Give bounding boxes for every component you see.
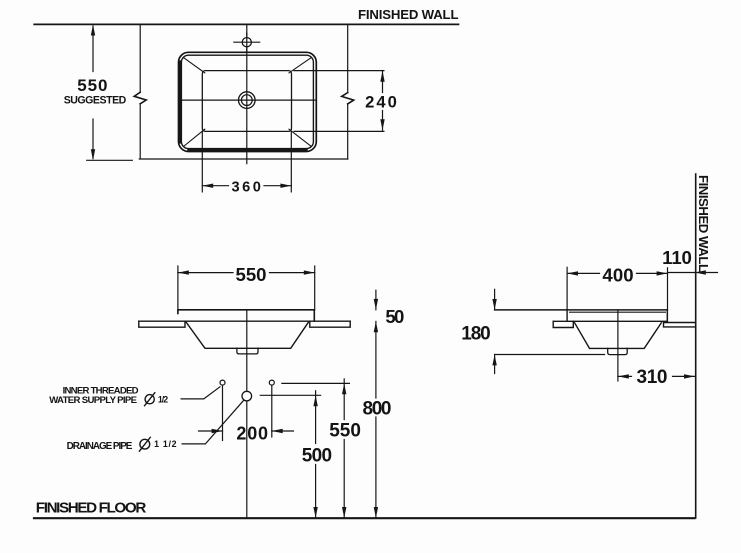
dim 180: arrow down — [492, 299, 496, 310]
extension line under right supply circle — [271, 386, 273, 437]
dim 550 height: arrow up — [342, 383, 346, 394]
dim 500: arrow up — [313, 395, 317, 406]
dim 400/110: shared extension line — [667, 268, 669, 322]
dim 360: arrow left — [202, 184, 213, 188]
leader line for water supply pipe — [181, 387, 220, 399]
svg-text:1 1/2: 1 1/2 — [154, 439, 176, 449]
svg-text:SUGGESTED: SUGGESTED — [64, 95, 127, 107]
vertical centre line (plan) — [246, 24, 248, 163]
dim 550 width: arrow left — [178, 270, 189, 274]
diameter symbol for supply pipe — [145, 395, 154, 404]
svg-text:FINISHED WALL: FINISHED WALL — [696, 175, 711, 272]
break symbol on left boundary — [134, 92, 146, 104]
horizontal centre line (plan) — [179, 99, 317, 101]
dim 110: dimension line — [668, 272, 695, 274]
svg-text:FINISHED WALL: FINISHED WALL — [358, 7, 459, 22]
dim 550 suggested: arrow down — [91, 149, 95, 160]
dim 180: bottom reference line — [495, 354, 605, 356]
dim 310: arrow right — [684, 374, 695, 378]
rim left edge (side) — [566, 310, 568, 321]
dim 550 height: arrow down — [342, 507, 346, 518]
left slab (front) — [139, 321, 185, 327]
dim 180: dimension line bottom segment — [494, 355, 496, 374]
dim 240: arrow up — [380, 71, 384, 82]
dim 550 width: extension line right — [314, 266, 316, 310]
drain outer circle (plan) — [239, 92, 256, 109]
svg-text:DRAINAGE PIPE: DRAINAGE PIPE — [67, 441, 133, 452]
corner diagonal top-left — [184, 58, 205, 73]
wall shelf (side) — [664, 323, 696, 327]
water supply circle right — [269, 380, 274, 385]
dim 310: arrow left — [618, 374, 629, 378]
dim 200: left arrow — [199, 430, 223, 432]
centre line (side) — [617, 310, 619, 381]
dim 310: dimension line — [618, 375, 632, 377]
bowl profile (front) — [186, 322, 308, 348]
reference line at drain level — [260, 394, 320, 396]
basin bottom rectangle (plan) — [202, 71, 291, 132]
faucet hole circle — [242, 38, 251, 47]
svg-text:400: 400 — [602, 265, 633, 286]
leader line for drainage pipe — [182, 401, 243, 444]
dim 550 width: dimension line — [178, 272, 233, 274]
dim 550 width: arrow right — [304, 270, 315, 274]
drain inner circle (plan) — [241, 95, 252, 106]
finished wall line (top) — [34, 23, 458, 25]
dim 400: arrow right — [657, 271, 668, 275]
svg-text:1/2: 1/2 — [158, 394, 168, 404]
drain fitting (side) — [608, 348, 628, 354]
basin outer rim (plan) — [179, 52, 317, 151]
inner rect bottom edge extension right — [294, 130, 384, 132]
bottom boundary line of plan view — [139, 158, 347, 160]
svg-text:550: 550 — [329, 420, 361, 441]
svg-text:FINISHED FLOOR: FINISHED FLOOR — [36, 499, 147, 516]
water supply circle left — [220, 380, 225, 385]
dim 240: arrow down — [380, 119, 384, 130]
right slab (front) — [310, 321, 350, 327]
dim 360: dimension line — [202, 185, 228, 187]
dim 180: arrow up — [492, 355, 496, 366]
dim 550 suggested: bottom extension line — [87, 159, 133, 161]
dim 550 width: extension line left — [177, 266, 179, 314]
svg-text:180: 180 — [461, 323, 490, 344]
left boundary line with break — [139, 24, 141, 92]
dim 400: arrow left — [567, 271, 578, 275]
svg-text:360: 360 — [232, 180, 261, 196]
dim 50: arrow down at rim top — [374, 299, 378, 310]
dim 800: arrow up — [374, 321, 378, 332]
rim top line with 180 reference extension (side) — [495, 309, 668, 311]
corner diagonal bottom-right — [289, 129, 311, 146]
inner rect right edge extension down — [290, 131, 292, 192]
break symbol on right boundary — [342, 93, 354, 104]
left tab (side) — [553, 321, 573, 327]
basin rim thick left edge (plan) — [178, 62, 181, 142]
dim 110: outside arrow at wall — [695, 272, 718, 274]
svg-text:500: 500 — [302, 446, 332, 467]
right boundary line with break — [347, 24, 349, 92]
bowl profile (side) — [575, 323, 662, 349]
reference line at supply level — [282, 382, 350, 384]
dim 550 suggested: dimension line — [92, 26, 94, 72]
dim 800: dimension line — [375, 321, 377, 398]
drain fitting (front) — [237, 348, 258, 354]
dim 360: arrow right — [280, 184, 291, 188]
svg-text:550: 550 — [77, 76, 107, 95]
svg-text:240: 240 — [365, 92, 397, 111]
svg-text:550: 550 — [236, 264, 267, 285]
svg-text:110: 110 — [662, 247, 692, 268]
dim 500: dimension line — [315, 391, 317, 444]
dim 800: arrow down — [374, 507, 378, 518]
corner diagonal bottom-left — [184, 129, 205, 146]
basin rim thick bottom edge (plan) — [189, 148, 306, 151]
drain circle (front) — [242, 391, 252, 401]
dim 400: extension line left — [566, 267, 568, 310]
svg-text:800: 800 — [363, 399, 392, 420]
finished wall line (right) — [695, 174, 697, 518]
counter line (side) — [553, 320, 667, 322]
centre line (front) — [246, 310, 248, 518]
svg-text:WATER SUPPLY PIPE: WATER SUPPLY PIPE — [49, 395, 137, 406]
svg-text:50: 50 — [385, 306, 404, 327]
extension line under left supply circle — [222, 386, 224, 441]
rim right edge (side) — [666, 310, 668, 321]
dim 550 height: dimension line — [343, 379, 345, 420]
dim 500: arrow down — [313, 507, 317, 518]
corner diagonal top-right — [289, 58, 311, 73]
dim 240: dimension line — [382, 71, 384, 93]
basin inner rim outline (plan) — [181, 55, 313, 148]
svg-text:200: 200 — [236, 424, 268, 444]
inner rect left edge extension down — [201, 131, 203, 192]
dim 550 suggested: arrow up — [91, 25, 95, 36]
counter line (front) — [139, 320, 350, 322]
rim inner line (side) — [570, 311, 666, 313]
faucet hole cross tick — [234, 41, 260, 43]
dim 200: right arrow — [272, 430, 294, 432]
finished floor line — [34, 517, 695, 519]
svg-text:310: 310 — [637, 367, 668, 388]
basin rim box (front) — [178, 310, 314, 321]
dim 180: dimension line top segment — [494, 289, 496, 310]
dim 50/800 shared line: top segment — [375, 290, 377, 310]
inner rect top edge extension right — [294, 70, 384, 72]
dim 400: dimension line — [567, 272, 599, 274]
diameter symbol for drainage pipe — [140, 439, 150, 449]
